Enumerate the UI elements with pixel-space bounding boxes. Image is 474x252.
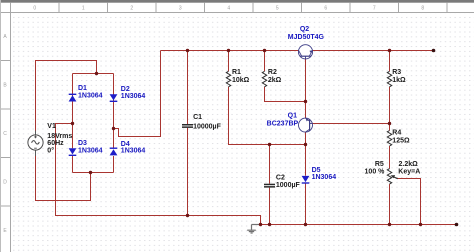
diode D1 <box>69 94 77 102</box>
svg-text:10000µF: 10000µF <box>193 124 221 131</box>
junction V1 to bridge bottom <box>89 171 92 174</box>
diode D3 <box>69 148 77 156</box>
svg-text:3: 3 <box>179 5 182 11</box>
wire plus output riser <box>114 51 161 137</box>
label R3 <box>392 69 406 84</box>
junction R3 top <box>388 49 391 52</box>
svg-text:1000µF: 1000µF <box>276 182 301 189</box>
junction ground corner <box>259 223 262 226</box>
transistor Q1 <box>299 118 313 132</box>
wire Q1 base to R3 R4 node <box>310 123 390 125</box>
svg-text:125Ω: 125Ω <box>392 137 410 144</box>
junction R3 R4 Q1 base <box>388 122 391 125</box>
wire R1 bottom lead <box>229 87 306 145</box>
transistor Q2 <box>298 45 312 59</box>
svg-text:7: 7 <box>373 5 376 11</box>
svg-text:4: 4 <box>227 5 230 11</box>
svg-text:R5: R5 <box>375 161 384 168</box>
svg-text:C2: C2 <box>276 175 285 182</box>
node output minus end dot <box>455 223 459 227</box>
svg-text:5: 5 <box>276 5 279 11</box>
wire mid-left to common rail <box>56 124 261 225</box>
wire R5 bottom lead <box>389 184 391 224</box>
svg-text:6: 6 <box>324 5 327 11</box>
resistor R1 <box>226 71 230 87</box>
label D3 <box>78 140 103 154</box>
svg-text:Key=A: Key=A <box>398 168 420 175</box>
wire D5 top lead <box>305 145 307 176</box>
svg-text:100 %: 100 % <box>365 168 386 175</box>
svg-text:R4: R4 <box>392 129 401 136</box>
svg-text:C1: C1 <box>193 114 202 121</box>
svg-text:D: D <box>3 180 7 186</box>
wire V1 bottom to bridge <box>36 151 91 201</box>
svg-text:1N3064: 1N3064 <box>78 148 103 155</box>
svg-text:2.2kΩ: 2.2kΩ <box>399 161 419 168</box>
node output plus end dot <box>432 49 436 53</box>
AC source V1 <box>28 131 43 157</box>
svg-text:60Hz: 60Hz <box>47 140 64 147</box>
diode D2 <box>110 94 118 102</box>
svg-text:10kΩ: 10kΩ <box>232 77 250 84</box>
label D1 <box>78 85 103 99</box>
wire top rail <box>161 50 434 52</box>
wire R3 bottom lead <box>389 87 391 124</box>
junction V1 to bridge top <box>95 72 98 75</box>
wire bottom rail <box>261 224 457 226</box>
svg-text:D3: D3 <box>78 140 87 147</box>
svg-text:1N3064: 1N3064 <box>121 148 146 155</box>
potentiometer R5 <box>387 169 397 185</box>
label Q1 <box>267 113 299 128</box>
junction wiper return <box>419 223 422 226</box>
wire C1 top lead <box>187 51 189 125</box>
junction R2 top <box>263 49 266 52</box>
wire R3 top lead <box>389 51 391 72</box>
wire C1 bottom lead <box>187 128 189 216</box>
svg-text:BC237BP: BC237BP <box>267 121 299 128</box>
wire Q2 base to Q1 emitter <box>305 57 307 145</box>
svg-text:Q1: Q1 <box>288 113 297 120</box>
diode D4 <box>110 148 118 156</box>
wire D3 bottom lead <box>72 156 74 173</box>
svg-text:Q2: Q2 <box>300 26 309 33</box>
junction C2 bottom <box>268 223 271 226</box>
svg-text:1N3064: 1N3064 <box>312 174 337 181</box>
junction R2 to Q column <box>304 100 307 103</box>
resistor R2 <box>262 71 266 87</box>
label R1 <box>232 69 250 84</box>
wire D4 bottom lead <box>113 156 115 173</box>
junction C1 bottom <box>186 214 189 217</box>
label D2 <box>121 86 146 100</box>
svg-text:C: C <box>3 131 7 137</box>
svg-text:MJD50T4G: MJD50T4G <box>288 34 325 41</box>
resistor R3 <box>387 71 391 87</box>
label R4 <box>392 129 410 144</box>
svg-text:2kΩ: 2kΩ <box>268 77 282 84</box>
svg-text:1kΩ: 1kΩ <box>392 77 406 84</box>
wire R2 top lead <box>264 51 266 72</box>
wire R4 to R5 <box>389 146 391 169</box>
junction R1 top <box>227 49 230 52</box>
junction Q1 collector node <box>304 143 307 146</box>
wire D1 D3 column <box>72 74 74 149</box>
svg-text:D1: D1 <box>78 85 87 92</box>
svg-text:R2: R2 <box>268 69 277 76</box>
svg-text:1N3064: 1N3064 <box>78 92 103 99</box>
wire D5 bottom lead <box>305 184 307 225</box>
label R5 <box>365 161 421 175</box>
svg-text:1N3064: 1N3064 <box>121 93 146 100</box>
label C2 <box>276 175 301 190</box>
svg-text:2: 2 <box>130 5 133 11</box>
label D4 <box>121 141 146 155</box>
wire D2 D4 column <box>113 74 115 149</box>
junction C1 top <box>186 49 189 52</box>
wire R5 wiper tap <box>397 178 421 224</box>
label V1 <box>47 123 72 155</box>
diode D5 <box>302 176 310 184</box>
label Q2 <box>288 26 325 41</box>
junction bridge mid-left <box>71 122 74 125</box>
wire R4 top lead <box>389 124 391 131</box>
label R2 <box>268 69 282 84</box>
junction C2 top <box>268 143 271 146</box>
wire V1 top riser <box>36 61 97 137</box>
junction bridge mid-right <box>112 127 115 130</box>
svg-text:V1: V1 <box>47 123 56 130</box>
svg-text:R1: R1 <box>232 69 241 76</box>
wire bridge bottom rail <box>73 172 114 174</box>
svg-text:0°: 0° <box>47 146 54 154</box>
wire R1 top lead <box>228 51 230 72</box>
wire C2 bottom lead <box>269 188 271 225</box>
label C1 <box>193 114 221 131</box>
capacitor C1 <box>182 124 193 128</box>
wire C2 top lead <box>269 145 271 184</box>
svg-text:8: 8 <box>421 5 424 11</box>
junction D5 bottom <box>304 223 307 226</box>
ground <box>247 225 260 234</box>
svg-text:18Vrms: 18Vrms <box>47 133 72 140</box>
junction R5 bottom <box>388 223 391 226</box>
wire R2 bottom lead <box>265 87 306 102</box>
label D5 <box>312 167 337 181</box>
wire bridge top rail <box>73 73 114 75</box>
resistor R4 <box>387 131 391 147</box>
capacitor C2 <box>264 184 275 188</box>
svg-text:1: 1 <box>82 5 85 11</box>
svg-text:R3: R3 <box>392 69 401 76</box>
svg-text:0: 0 <box>33 5 36 11</box>
